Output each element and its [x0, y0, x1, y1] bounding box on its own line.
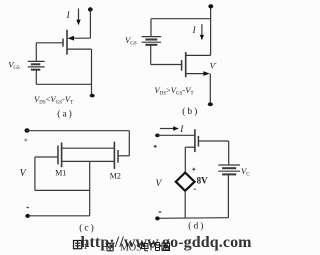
svg-text:(c): (c) [79, 222, 96, 233]
transistor gate bar (d) [197, 136, 199, 147]
wire: drain lead (b) [186, 54, 211, 56]
wire: gate lead (a) [36, 42, 62, 44]
wire: middle vertical from source line to bottom (c) [89, 162, 91, 216]
node: drain terminal dot (a) [88, 7, 93, 11]
arrowhead on source lead pointing right (b) [203, 71, 209, 76]
svg-text:(a): (a) [57, 109, 74, 120]
battery VGS plate long (b) [142, 41, 162, 43]
caption hanzi dian [142, 242, 149, 251]
node: bottom terminal dot (b) [208, 102, 213, 106]
wire: right vertical upper (d) [228, 141, 230, 165]
battery VGS plate short thick 2 (a) [31, 69, 40, 71]
transistor M1 channel bar [61, 142, 63, 167]
current arrow I right (d) [160, 128, 174, 130]
wire: top rail (c) [27, 130, 129, 132]
node: plus terminal dot (d) [155, 134, 160, 138]
minus sign small (c) [27, 207, 29, 209]
svg-text:http://www.go-gddq.com: http://www.go-gddq.com [81, 234, 253, 251]
transistor M2 gate bar [117, 150, 119, 163]
caption hanzi tu (figure) [74, 241, 82, 249]
svg-text:M2: M2 [110, 171, 121, 180]
wire: source vertical down to diamond (d) [184, 147, 186, 173]
wire: drain vertical from top dot (a) [89, 10, 91, 39]
svg-text:(d): (d) [188, 221, 205, 232]
node: source terminal dot (a) [90, 94, 95, 98]
current arrow I (b) [201, 24, 203, 34]
transistor M1 gate bar [57, 146, 59, 165]
battery VC plate short thick (d) [222, 167, 236, 169]
wire: source lead with right arrow (b) [186, 73, 204, 75]
wire: source connection line M1-M2 (c) [62, 160, 115, 162]
transistor gate bar (b) [181, 60, 183, 71]
battery VGS plate long top (a) [28, 60, 45, 62]
battery VGS plate short thick (a) [31, 63, 40, 65]
wire: right vertical lower (d) [227, 175, 229, 218]
node: plus terminal dot (c) [25, 128, 30, 133]
wire: right vertical (c) [128, 131, 130, 156]
transistor channel bar (a) [66, 30, 68, 55]
wire: right vertical from top dot to drain (b) [210, 6, 212, 55]
minus sign at diamond (d) [194, 188, 196, 190]
wire: M2 gate lead (c) [118, 155, 129, 157]
wire: top wire to transistor drain (d) [157, 134, 195, 136]
node: minus terminal dot (d) [155, 216, 160, 220]
dependent source diamond 8V (d) [176, 173, 195, 191]
plus sign at diamond (d) [192, 168, 195, 171]
wire: source lead (a) [67, 48, 92, 50]
svg-text:M1: M1 [55, 168, 66, 177]
arrowhead on drain lead pointing left (a) [68, 36, 74, 41]
caption hanzi liang [106, 243, 115, 251]
wire: left vertical (c) [34, 157, 36, 190]
wire: top wire (b) [151, 18, 211, 20]
minus sign small (d) [159, 211, 162, 213]
battery VC plate long top (d) [218, 164, 240, 166]
wire: diamond bottom lead (d) [184, 191, 186, 219]
node: minus terminal dot (c) [25, 214, 30, 218]
svg-text:(b): (b) [182, 106, 199, 117]
wire: bottom return wire (a) [36, 83, 91, 85]
transistor channel bar (d) [194, 129, 196, 152]
wire: bottom wire (c) [28, 215, 90, 217]
wire: gate lead (b) [151, 64, 181, 66]
transistor channel bar (b) [185, 52, 187, 77]
battery VGS plate short thick 2 (b) [145, 44, 157, 46]
battery VC plate long (d) [218, 170, 240, 172]
node: top terminal dot (b) [208, 4, 213, 8]
wire: M1 gate lead (c) [35, 156, 58, 158]
wire: gate lead to right (d) [199, 140, 229, 142]
wire: battery top lead (b) [150, 19, 152, 36]
battery VGS plate long (a) [28, 66, 45, 68]
wire: lower-left horizontal (c) [35, 189, 90, 191]
wire: source lead (d) [185, 146, 195, 148]
caption hanzi lu [151, 243, 160, 251]
battery VGS plate long top (b) [142, 36, 162, 38]
caption hanzi tu 2 [162, 243, 170, 251]
battery VGS plate short thick (b) [145, 39, 157, 41]
svg-text:8V: 8V [197, 176, 209, 186]
wire: drain lead with arrow into channel (a) [73, 37, 90, 39]
wire: drain connection line M1-M2 (c) [62, 147, 115, 149]
transistor gate bar (a) [62, 39, 64, 47]
wire: battery top lead (a) [35, 43, 37, 61]
plus sign small (c) [24, 139, 27, 142]
wire: battery bottom lead (b) [150, 46, 152, 65]
wire: battery bottom lead (a) [35, 71, 37, 85]
plus sign small (d) [154, 145, 157, 148]
current arrow I (a) [78, 8, 80, 20]
transistor M2 channel bar [113, 142, 115, 169]
wire: bottom wire (d) [157, 217, 228, 220]
wire: lower vertical to bottom dot (b) [209, 74, 211, 105]
battery VC plate short thick 2 (d) [222, 173, 236, 175]
wire: right vertical to bottom terminal (a) [91, 49, 93, 95]
